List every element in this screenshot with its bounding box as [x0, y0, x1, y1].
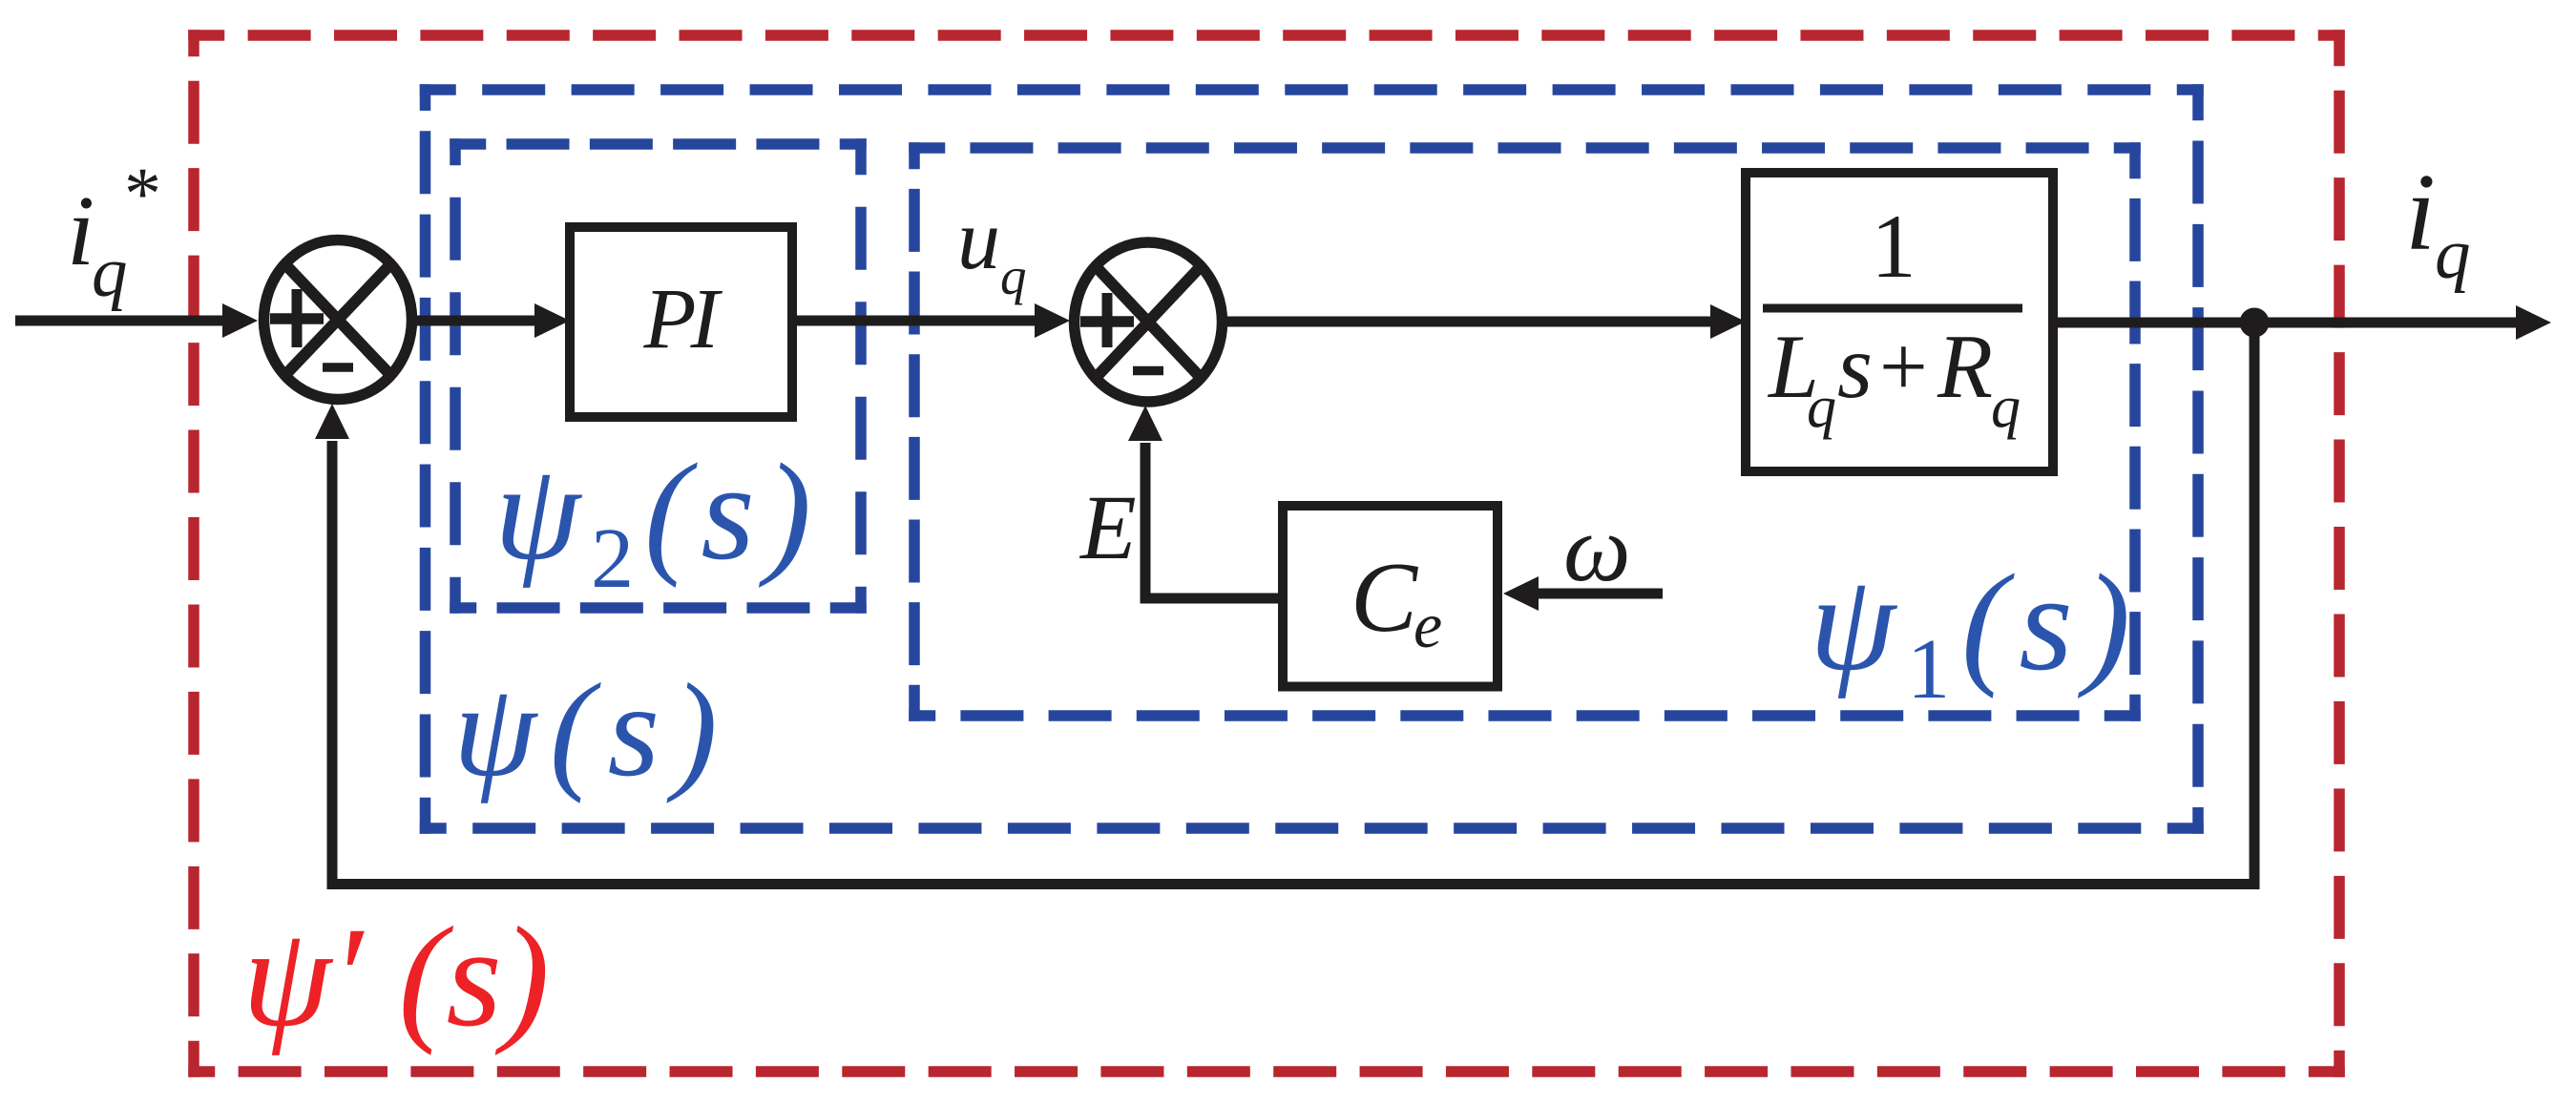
svg-text:e: e: [1414, 589, 1442, 661]
svg-text:ψ2(s): ψ2(s): [494, 436, 822, 606]
svg-text:C: C: [1351, 541, 1419, 653]
svg-text:q: q: [92, 233, 128, 312]
svg-text:s: s: [1837, 316, 1873, 417]
svg-text:E: E: [1079, 476, 1137, 578]
svg-text:ψ′ (s): ψ′ (s): [242, 898, 550, 1056]
svg-text:i: i: [2405, 152, 2436, 273]
svg-text:q: q: [1991, 375, 2021, 440]
svg-text:R: R: [1937, 316, 1993, 417]
svg-text:+: +: [1879, 320, 1928, 414]
svg-text:ω: ω: [1563, 495, 1631, 601]
svg-text:*: *: [124, 152, 161, 235]
svg-text:u: u: [957, 193, 1000, 287]
svg-text:i: i: [67, 175, 94, 286]
svg-text:q: q: [1000, 247, 1027, 305]
svg-text:PI: PI: [643, 272, 723, 366]
svg-text:ψ1(s): ψ1(s): [1810, 547, 2142, 717]
svg-text:q: q: [1807, 375, 1836, 440]
svg-text:ψ(s): ψ(s): [453, 657, 731, 804]
svg-text:q: q: [2435, 215, 2471, 294]
svg-text:1: 1: [1871, 196, 1916, 297]
